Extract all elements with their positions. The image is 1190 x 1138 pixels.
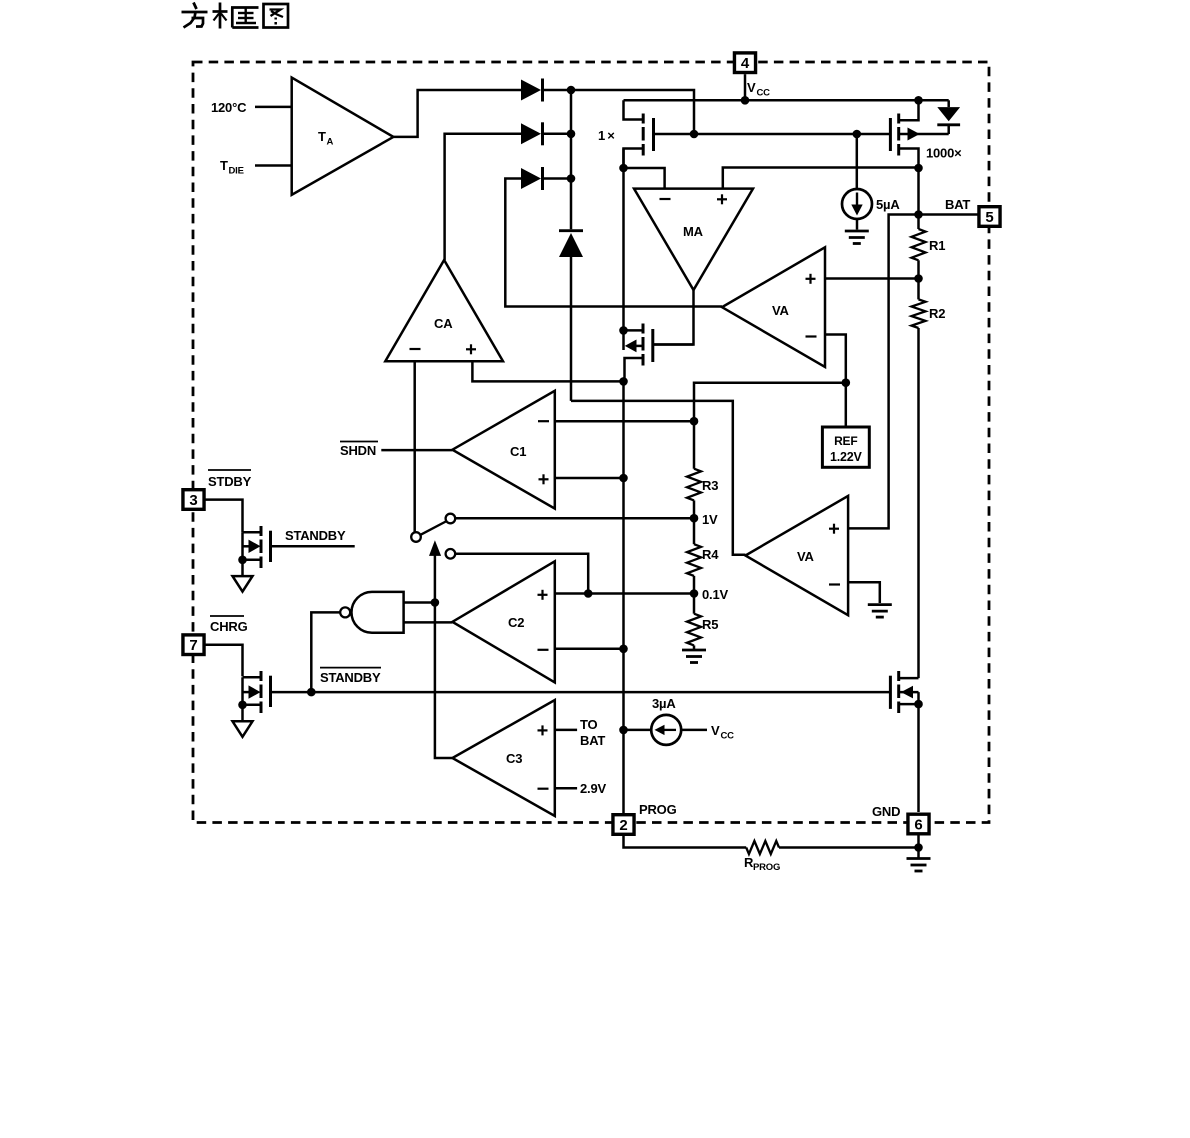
svg-text:CA: CA <box>434 316 453 331</box>
label VCC at 3uA <box>711 723 734 742</box>
wire switch upper contact to 1V <box>455 517 694 520</box>
label VCC top <box>747 80 770 99</box>
reference REF 1.22V <box>822 383 869 468</box>
node M3 drain junction <box>619 326 628 335</box>
node C1 plus junction <box>619 474 628 483</box>
svg-text:3: 3 <box>189 492 197 509</box>
svg-text:DIE: DIE <box>229 166 244 177</box>
pin 5 BAT <box>979 207 1000 227</box>
label STANDBY (M1 gate) <box>285 528 346 543</box>
ground below R5 <box>682 650 706 663</box>
switch contact upper (1V) <box>446 514 456 524</box>
label STDBY with overline <box>208 470 252 489</box>
op-amp CA <box>385 260 503 361</box>
node C2 minus junction <box>619 645 628 654</box>
wire switch lower contact to C2 plus <box>455 554 588 594</box>
op-amp VA2 <box>745 496 848 615</box>
node C2 plus / switch junction <box>584 589 593 598</box>
svg-text:STDBY: STDBY <box>208 474 252 489</box>
wire CA minus to switch <box>413 361 416 532</box>
wire BAT to pin5 <box>919 213 979 216</box>
pin 6 GND <box>908 814 929 834</box>
wire GND pin to node <box>917 836 920 848</box>
svg-text:2.9V: 2.9V <box>580 781 606 796</box>
wire VA2 minus to ground <box>848 582 880 603</box>
diode D4 (pointing up, in bus) <box>559 231 583 257</box>
svg-text:VA: VA <box>797 549 815 564</box>
node M4 source junction <box>914 700 923 709</box>
wire RPROG to GND node <box>779 846 919 849</box>
wire R1 to node <box>917 260 920 278</box>
svg-text:REF: REF <box>834 434 857 448</box>
svg-text:1V: 1V <box>702 512 718 527</box>
label 2.9V <box>580 781 606 796</box>
wire pin3 to M1 drain <box>205 500 243 533</box>
svg-text:4: 4 <box>741 55 750 72</box>
node M2 source junction <box>238 701 247 710</box>
node D3-bus junction <box>567 174 576 183</box>
wire R5 to ground <box>693 645 696 650</box>
ground triangle below M1 <box>233 576 253 592</box>
svg-text:V: V <box>711 723 720 738</box>
wire C2 plus input <box>555 592 694 595</box>
wire R3 to 1V node <box>693 500 696 518</box>
node MA minus junction <box>619 164 628 173</box>
wire C3 output up to switch arrow <box>435 603 453 759</box>
resistor R4 <box>687 544 701 576</box>
ground below GND pin <box>907 848 931 872</box>
node R1-R2 junction <box>914 274 923 283</box>
wire left column upper <box>622 149 625 351</box>
svg-text:STANDBY: STANDBY <box>320 670 381 685</box>
wire diode bus vertical <box>570 90 573 401</box>
label R2 <box>929 306 945 321</box>
comparator C3 <box>452 700 554 816</box>
wire 1V to R4 <box>693 518 696 544</box>
svg-text:STANDBY: STANDBY <box>285 528 346 543</box>
svg-text:1 ×: 1 × <box>598 128 615 143</box>
svg-text:1000×: 1000× <box>926 146 962 161</box>
svg-text:V: V <box>747 80 756 95</box>
svg-text:A: A <box>327 137 334 148</box>
label 5uA <box>876 197 900 212</box>
svg-text:CHRG: CHRG <box>210 619 248 634</box>
svg-text:MA: MA <box>683 224 704 239</box>
node GND bottom junction <box>914 843 923 852</box>
svg-text:TO: TO <box>580 717 598 732</box>
svg-text:5µA: 5µA <box>876 197 900 212</box>
ground below 5uA <box>845 231 869 244</box>
wire node to R2 <box>917 279 920 300</box>
svg-text:PROG: PROG <box>753 862 780 873</box>
label 1x <box>598 128 615 143</box>
node diode bus top <box>567 86 576 95</box>
wire pin7 to M2 drain <box>205 645 243 677</box>
node REF junction <box>842 378 851 387</box>
label 1V <box>702 512 718 527</box>
wire C3 minus stub <box>555 787 577 790</box>
svg-text:SHDN: SHDN <box>340 443 376 458</box>
svg-text:R3: R3 <box>702 478 718 493</box>
ground triangle below M2 <box>233 721 253 737</box>
svg-text:BAT: BAT <box>945 197 970 212</box>
switch lower contact <box>446 549 456 559</box>
wire TDIE input <box>255 164 292 167</box>
svg-text:6: 6 <box>914 816 922 833</box>
diode D3 (voltage amp VA) <box>521 167 571 190</box>
wire REF rail <box>694 383 846 469</box>
wire VA1 minus input <box>825 335 846 383</box>
label TO BAT <box>580 717 605 748</box>
wire pin4 to VCC rail <box>744 74 747 100</box>
svg-text:120°C: 120°C <box>211 100 247 115</box>
svg-text:VA: VA <box>772 303 790 318</box>
wire MA output to M3 gate <box>654 290 694 345</box>
ground below VA2 <box>868 605 892 618</box>
wire BAT to R1 <box>917 215 920 230</box>
svg-text:T: T <box>318 129 326 144</box>
pin 3 STDBY <box>183 490 204 510</box>
svg-text:C3: C3 <box>506 751 522 766</box>
node 0.1V <box>690 589 699 598</box>
node M1 source junction <box>238 556 247 565</box>
comparator C2 <box>452 561 554 682</box>
svg-text:0.1V: 0.1V <box>702 587 728 602</box>
comparator C1 <box>452 391 554 509</box>
node 1x gate / diode-bus junction <box>690 130 699 139</box>
node VCC pin junction <box>741 96 750 105</box>
wire gate rail to 1000x <box>694 133 890 136</box>
switch lever <box>421 522 446 535</box>
label 3uA <box>652 696 676 711</box>
node NAND input / C3 output junction <box>431 598 440 607</box>
label PROG <box>639 802 677 817</box>
svg-text:CC: CC <box>757 88 771 99</box>
wire PROG to bottom rail <box>624 836 747 848</box>
transistor 1x PMOS <box>624 100 695 168</box>
wire 0.1V to R5 <box>693 594 696 614</box>
label R4 <box>702 547 719 562</box>
node C1 minus / REF-chain junction <box>690 417 699 426</box>
svg-text:T: T <box>220 158 228 173</box>
transistor 1000x PMOS <box>890 100 948 168</box>
wire MA minus input <box>624 168 665 189</box>
pin 4 VCC <box>734 53 755 73</box>
node 1000x drain on VCC rail <box>914 96 923 105</box>
label 0.1V <box>702 587 728 602</box>
node 1V <box>690 514 699 523</box>
svg-text:7: 7 <box>189 637 197 654</box>
label 1000x <box>926 146 962 161</box>
wire C3 plus stub <box>555 729 577 732</box>
transistor M1 (STDBY open-drain) <box>243 526 355 576</box>
wire SHDN to C1 output <box>381 449 452 452</box>
wire C2 minus input <box>555 648 624 651</box>
label BAT <box>945 197 970 212</box>
svg-text:3µA: 3µA <box>652 696 676 711</box>
current source 3uA <box>624 715 708 745</box>
svg-text:5: 5 <box>985 209 993 226</box>
title text 方框图 (Block Diagram) drawn as strokes <box>182 3 289 29</box>
svg-text:GND: GND <box>872 804 900 819</box>
wire NAND upper input <box>404 601 435 604</box>
resistor RPROG <box>746 841 779 854</box>
label R3 <box>702 478 718 493</box>
wire D1 junction to gate-rail corner <box>571 90 694 134</box>
wire bus to VA2 output <box>571 401 745 555</box>
label TDIE <box>220 158 244 177</box>
label STANDBY-bar with overline <box>320 668 381 685</box>
diode D1 (thermal amp) <box>521 79 571 102</box>
wire VA1 output rail to D3 anode <box>505 179 722 307</box>
label GND <box>872 804 900 819</box>
transistor M2 (CHRG open-drain) <box>243 671 271 721</box>
wire 1000x source to BAT <box>917 168 920 215</box>
resistor R3 <box>687 469 701 501</box>
label 120°C <box>211 100 247 115</box>
node D2-bus junction <box>567 130 576 139</box>
node 1000x source junction <box>914 164 923 173</box>
diode D2 (current amp CA) <box>521 122 571 145</box>
svg-text:BAT: BAT <box>580 733 605 748</box>
wire CA output up to D2 anode <box>445 134 521 260</box>
wire R2 down to M4 drain <box>917 328 920 678</box>
label R1 <box>929 238 945 253</box>
svg-text:PROG: PROG <box>639 802 677 817</box>
diode D5 body diode <box>937 100 960 134</box>
wire VCC rail <box>624 99 949 102</box>
pin 7 CHRG <box>183 635 204 655</box>
resistor R1 <box>912 229 926 260</box>
switch actuator arrow from C3 <box>429 540 441 602</box>
resistor R5 <box>687 614 701 646</box>
label SHDN with overline <box>340 442 378 459</box>
wire R4 to 0.1V node <box>693 576 696 594</box>
node NAND output on STANDBY rail <box>307 688 316 697</box>
wire VA1 plus input <box>825 277 919 280</box>
svg-text:C1: C1 <box>510 444 526 459</box>
wire left column long vertical <box>622 381 625 813</box>
wire 120C input <box>255 106 292 109</box>
op-amp MA <box>634 189 753 290</box>
wire CA plus input <box>472 361 623 381</box>
svg-text:R1: R1 <box>929 238 945 253</box>
node BAT <box>914 210 923 219</box>
pin 2 PROG <box>613 815 634 835</box>
label CHRG with overline <box>210 616 248 634</box>
svg-text:2: 2 <box>619 817 627 834</box>
wire STANDBY-bar rail (M2 gate to M4 gate) <box>272 691 890 694</box>
resistor R2 <box>912 299 926 328</box>
wire NAND output to STANDBY rail <box>311 612 339 692</box>
label RPROG <box>744 855 780 873</box>
node gate rail - 5uA junction <box>853 130 862 139</box>
dashed IC boundary box <box>193 62 989 823</box>
current source 5uA <box>842 134 872 230</box>
op-amp VA1 <box>722 247 825 367</box>
wire C1 minus input <box>555 420 694 423</box>
wire C2 output to NAND input <box>404 621 453 624</box>
svg-text:R5: R5 <box>702 617 718 632</box>
node M3 source / CA plus junction <box>619 377 628 386</box>
op-amp TA <box>292 78 394 195</box>
svg-text:R4: R4 <box>702 547 719 562</box>
switch pivot <box>411 532 421 542</box>
svg-text:CC: CC <box>721 731 735 742</box>
label R5 <box>702 617 718 632</box>
wire C1 plus input <box>555 477 624 480</box>
svg-text:R2: R2 <box>929 306 945 321</box>
wire BAT to VA2 plus <box>848 215 918 529</box>
wire MA plus input <box>723 168 919 189</box>
NAND gate (output bubble left) <box>340 592 403 633</box>
svg-text:C2: C2 <box>508 615 524 630</box>
transistor M3 PMOS <box>624 324 694 382</box>
node 3uA junction <box>619 726 628 735</box>
svg-text:1.22V: 1.22V <box>830 450 863 464</box>
transistor M4 (PROG pulldown) <box>890 671 918 812</box>
wire TA output to diode D1 <box>393 90 521 137</box>
